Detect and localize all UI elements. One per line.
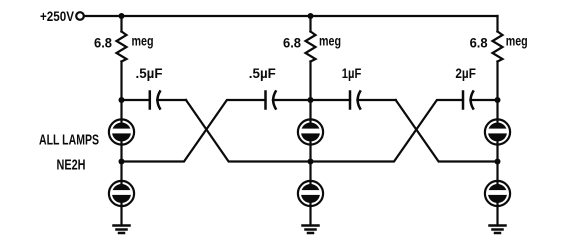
resistor 6.8 meg (stage 1) [94, 32, 154, 62]
lamp NE2H L2 (stage 1 lower) [109, 181, 134, 206]
capacitor C3 1uF [311, 65, 396, 109]
wire: node A1 to lamp 1 [120, 100, 122, 120]
wire: stage 2 rail to resistor [309, 16, 311, 32]
svg-text:meg: meg [506, 33, 528, 49]
wire: stage 2 resistor to node A2 [309, 62, 311, 101]
wire: lamp 6 to ground [496, 206, 498, 226]
wire: lamp 2 to ground [120, 206, 122, 226]
node B2 junction [308, 159, 314, 165]
wire: node A3 to lamp 5 [496, 100, 498, 120]
svg-text:6.8: 6.8 [283, 35, 301, 51]
wire: lamp 5 to node B3 [496, 145, 498, 162]
junction: rail tap stage 1 [119, 13, 125, 19]
ground (stage 2) [303, 226, 319, 234]
wire: stage 3 rail corner to resistor [496, 16, 498, 32]
wire: lamp 3 to node B2 [309, 145, 311, 162]
svg-text:meg: meg [319, 33, 341, 49]
svg-text:6.8: 6.8 [94, 35, 112, 51]
wire: C1 diagonal down to stage 2 bottom [186, 100, 311, 162]
svg-text:.5µF: .5µF [249, 65, 276, 81]
resistor 6.8 meg (stage 2) [283, 32, 341, 62]
wire: node B2 to lamp 4 [309, 162, 311, 182]
svg-text:NE2H: NE2H [57, 157, 86, 174]
lamp NE2H L1 (stage 1 upper) [109, 119, 134, 144]
ground (stage 1) [114, 226, 130, 234]
node B1 junction [119, 159, 125, 165]
capacitor C2 .5uF [249, 65, 311, 109]
svg-text:meg: meg [132, 33, 154, 49]
svg-text:.5µF: .5µF [136, 65, 163, 81]
capacitor C1 .5uF [122, 65, 187, 109]
lamp NE2H L4 (stage 2 lower) [298, 181, 323, 206]
svg-text:+250V: +250V [40, 8, 75, 24]
wire: lamp 4 to ground [309, 206, 311, 226]
wire: stage 3 resistor to node A3 [496, 62, 498, 101]
wire: C3 diagonal down to stage 3 bottom [396, 100, 498, 162]
wire: node B1 diagonal up to C2 [122, 100, 266, 162]
svg-text:1µF: 1µF [342, 65, 362, 81]
lamp NE2H L5 (stage 3 upper) [485, 119, 510, 144]
node A3 junction [495, 97, 501, 103]
resistor 6.8 meg (stage 3) [470, 32, 528, 62]
svg-text:2µF: 2µF [455, 65, 476, 81]
lamp NE2H L6 (stage 3 lower) [485, 181, 510, 206]
wire: node B1 to lamp 2 [120, 162, 122, 182]
junction: rail tap stage 2 [308, 13, 314, 19]
lamp NE2H L3 (stage 2 upper) [298, 119, 323, 144]
svg-text:ALL LAMPS: ALL LAMPS [39, 133, 99, 149]
wire: node A2 to lamp 3 [309, 100, 311, 120]
svg-text:6.8: 6.8 [470, 35, 488, 51]
wire: node B2 diagonal up to C4 [311, 100, 464, 162]
wire: lamp 1 to node B1 [120, 145, 122, 162]
wire: node B3 to lamp 6 [496, 162, 498, 182]
ground (stage 3) [490, 226, 506, 234]
+250V supply terminal [40, 8, 84, 24]
wire: top supply rail [84, 15, 498, 17]
wire: stage 1 resistor to node A1 [120, 62, 122, 101]
node A1 junction [119, 97, 125, 103]
wire: stage 1 rail to resistor [120, 16, 122, 32]
node A2 junction [308, 97, 314, 103]
node B3 junction [495, 159, 501, 165]
capacitor C4 2uF [455, 65, 497, 109]
